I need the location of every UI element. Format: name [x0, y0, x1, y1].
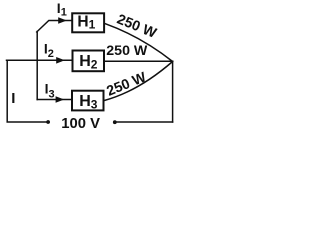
heater H1 box — [72, 13, 104, 32]
svg-text:250 W: 250 W — [105, 69, 150, 99]
svg-text:250 W: 250 W — [106, 43, 148, 59]
wire: bottom rail right segment to source terminal — [117, 121, 173, 123]
svg-text:I2: I2 — [44, 41, 54, 61]
wire: branch-3 lead to heater H3 — [37, 99, 71, 101]
wire: branch-1 lead to heater H1 — [37, 21, 72, 33]
wire: right vertical from node down to bottom rail — [172, 61, 174, 122]
terminal dot: left terminal of 100 V source — [46, 120, 50, 124]
current arrow I2 — [56, 57, 65, 64]
terminal dot: right terminal of 100 V source — [113, 120, 117, 124]
svg-text:I1: I1 — [57, 0, 67, 19]
svg-text:100 V: 100 V — [61, 116, 100, 131]
wire: branch-2 feed from left vertical to heater H2 — [7, 59, 72, 61]
wire: left vertical from node at branch-2 down to bottom rail — [7, 60, 46, 122]
svg-text:I3: I3 — [45, 80, 55, 100]
heater H3 box — [72, 91, 104, 111]
current arrow I1 — [58, 17, 67, 24]
wire: heater H3 output to right node — [104, 62, 173, 101]
svg-text:I: I — [11, 90, 15, 107]
heater H2 box — [73, 51, 105, 72]
wire: heater H2 output to right node — [105, 60, 173, 62]
current arrow I3 — [56, 96, 65, 103]
wire: heater H1 output to right node — [105, 23, 173, 61]
wire: junction riser between branch-1 and branch-3 — [36, 32, 38, 100]
